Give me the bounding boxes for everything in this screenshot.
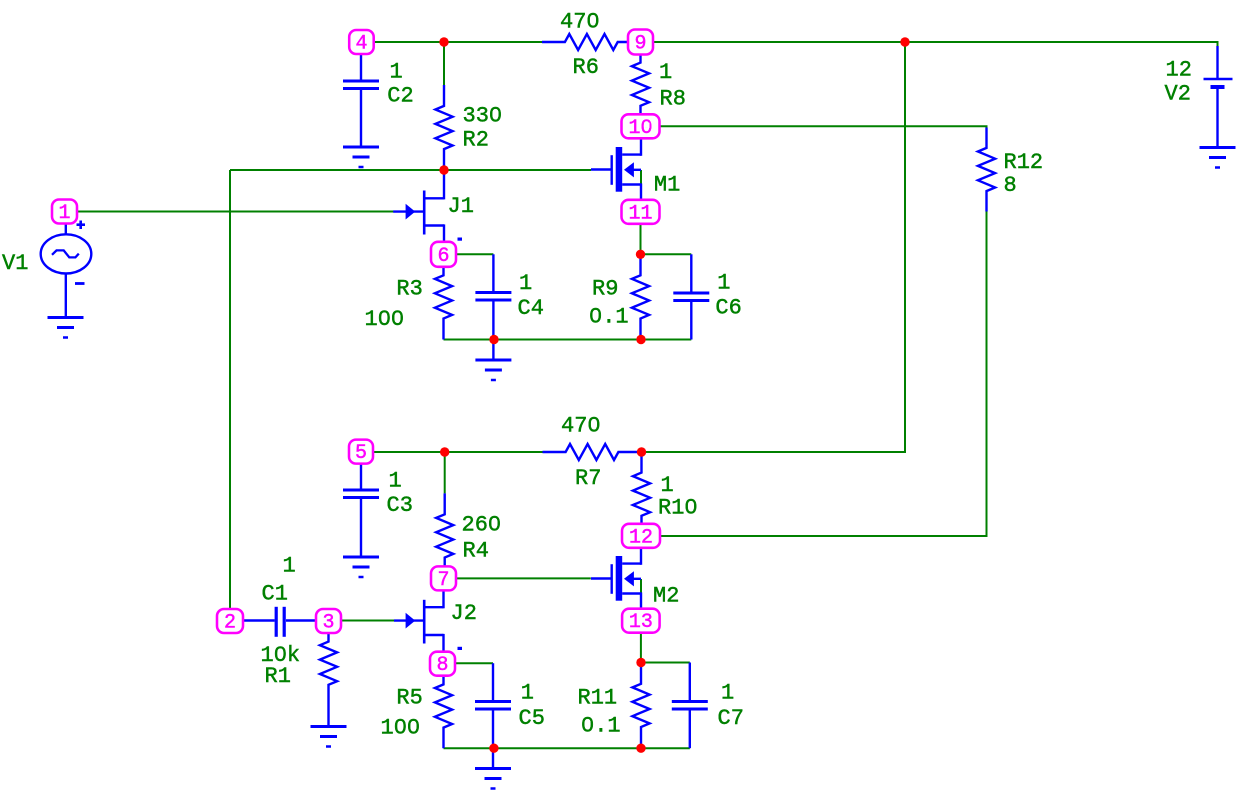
label V1 <box>2 251 28 276</box>
label R10 <box>658 495 698 520</box>
svg-text:C7: C7 <box>718 706 744 731</box>
junction <box>439 165 448 174</box>
label R10 value 1 <box>661 473 674 498</box>
label R1 <box>265 664 291 689</box>
svg-text:9: 9 <box>634 33 646 56</box>
wire R12 to node12 <box>661 212 987 537</box>
svg-text:1: 1 <box>721 680 734 705</box>
label R7 value 470 <box>561 414 601 439</box>
junction <box>440 447 449 456</box>
transistor M2 <box>591 547 641 609</box>
label C6 value 1 <box>717 271 730 296</box>
svg-text:2: 2 <box>224 612 236 635</box>
resistor R3 <box>435 254 452 339</box>
wire node6 to C4 <box>456 253 493 255</box>
svg-text:1: 1 <box>661 473 674 498</box>
label M2 <box>653 583 679 608</box>
svg-text:J2: J2 <box>451 601 477 626</box>
svg-text:3: 3 <box>322 612 334 635</box>
label R12 <box>1004 150 1044 175</box>
resistor R4 <box>436 493 453 578</box>
label R5 <box>396 686 422 711</box>
svg-text:12: 12 <box>1166 58 1192 83</box>
wire node9 to V2 <box>653 42 1218 47</box>
label R7 <box>575 466 601 491</box>
svg-text:1: 1 <box>717 271 730 296</box>
wire node11 down <box>640 223 642 254</box>
resistor R9 <box>632 254 649 339</box>
wire node7 to M2 gate <box>456 577 591 579</box>
svg-text:1: 1 <box>519 271 532 296</box>
svg-text:R11: R11 <box>578 685 618 710</box>
ground (C4) <box>475 360 511 380</box>
svg-text:5: 5 <box>355 442 367 465</box>
node 4 <box>349 30 374 56</box>
svg-text:1: 1 <box>58 202 70 225</box>
svg-text:M1: M1 <box>654 173 680 198</box>
junction <box>636 335 645 344</box>
wire to C7 top <box>641 662 690 664</box>
wire C4 to ground <box>492 340 494 361</box>
node 9 <box>628 30 653 56</box>
node 13 <box>622 609 660 635</box>
svg-text:13: 13 <box>629 611 653 634</box>
wire to R4 top <box>444 452 446 493</box>
transistor M1 <box>591 138 641 200</box>
capacitor C6 <box>673 254 709 339</box>
node 10 <box>622 114 660 140</box>
label R2 <box>463 127 489 152</box>
junction <box>900 37 909 46</box>
capacitor C4 <box>475 254 511 339</box>
svg-text:V2: V2 <box>1165 82 1191 107</box>
svg-text:8: 8 <box>1004 173 1017 198</box>
pin dot near node 8 <box>458 647 463 650</box>
svg-text:1: 1 <box>521 680 534 705</box>
wire gate rail to M1 <box>230 169 591 171</box>
svg-text:R5: R5 <box>396 686 422 711</box>
label C5 value 1 <box>521 680 534 705</box>
svg-text:R12: R12 <box>1004 150 1044 175</box>
label R11 value 0.1 <box>581 713 621 738</box>
svg-text:R1: R1 <box>265 664 291 689</box>
svg-text:J1: J1 <box>448 194 474 219</box>
transistor J2 <box>394 591 444 652</box>
label J1 <box>448 194 474 219</box>
ground (R1) <box>311 727 347 747</box>
label R5 value 100 <box>381 716 421 741</box>
svg-text:C5: C5 <box>519 706 545 731</box>
node 2 <box>217 609 243 635</box>
label C7 <box>718 706 744 731</box>
junction <box>636 658 645 667</box>
resistor R11 <box>632 663 649 749</box>
label R3 value 100 <box>365 307 405 332</box>
node 6 <box>431 242 456 268</box>
resistor R2 <box>435 85 452 170</box>
label R8 value 1 <box>659 60 672 85</box>
wire node13 down <box>640 632 642 662</box>
node 5 <box>349 440 373 466</box>
label C4 value 1 <box>519 271 532 296</box>
label C1 value 1 <box>283 554 296 579</box>
node 11 <box>622 200 660 226</box>
wire down to node2 <box>229 170 231 609</box>
label R6 value 470 <box>560 10 600 35</box>
resistor R10 <box>633 452 650 537</box>
wire node1 to J1 gate <box>77 211 394 213</box>
svg-text:10: 10 <box>628 117 652 140</box>
svg-text:C4: C4 <box>518 296 544 321</box>
svg-text:C3: C3 <box>387 493 413 518</box>
capacitor C2 <box>343 54 379 147</box>
label R2 value 330 <box>463 103 503 128</box>
svg-text:R4: R4 <box>463 539 489 564</box>
svg-text:V1: V1 <box>2 251 28 276</box>
junction <box>636 744 645 753</box>
wire R7 to supply riser <box>642 42 906 452</box>
wire node5 to R7 <box>373 451 543 453</box>
ground (C3) <box>343 557 379 577</box>
label R8 <box>660 87 686 112</box>
node 1 <box>52 200 77 226</box>
wire node3 to J2 gate <box>341 620 395 622</box>
label C6 <box>715 296 741 321</box>
wire M1 bulk to source <box>640 170 642 185</box>
node 3 <box>316 609 341 635</box>
svg-text:R8: R8 <box>660 87 686 112</box>
wire stage1 bottom rail <box>444 339 692 341</box>
label C5 <box>519 706 545 731</box>
svg-text:R2: R2 <box>463 127 489 152</box>
transistor J1 <box>393 170 444 242</box>
label R12 value 8 <box>1004 173 1017 198</box>
svg-text:R3: R3 <box>396 276 422 301</box>
capacitor C1 <box>230 607 329 637</box>
ground (V1) <box>48 318 84 338</box>
svg-text:1: 1 <box>659 60 672 85</box>
svg-text:12: 12 <box>629 526 653 549</box>
label C3 value 1 <box>389 469 402 494</box>
label C4 <box>518 296 544 321</box>
wire to C6 top <box>641 253 692 255</box>
svg-text:R6: R6 <box>573 55 599 80</box>
wire node10 to R12 <box>660 126 987 128</box>
resistor R6 <box>542 34 641 50</box>
label C1 <box>262 581 288 606</box>
capacitor C5 <box>475 663 511 748</box>
pin dot near node 6 <box>458 238 463 241</box>
svg-text:C1: C1 <box>262 581 288 606</box>
ground (V2) <box>1200 148 1236 168</box>
battery V2 <box>1204 46 1233 148</box>
svg-text:1: 1 <box>389 469 402 494</box>
resistor R7 <box>543 444 642 460</box>
wire stage2 bottom rail <box>444 747 690 749</box>
label C3 <box>387 493 413 518</box>
svg-text:1: 1 <box>390 59 403 84</box>
resistor R12 <box>978 128 995 212</box>
node 8 <box>430 652 455 678</box>
ground (C2) <box>343 147 379 167</box>
label R9 <box>592 276 618 301</box>
svg-text:R7: R7 <box>575 466 601 491</box>
label R4 value 260 <box>462 513 502 538</box>
junction <box>637 447 646 456</box>
svg-text:7: 7 <box>437 569 449 592</box>
junction <box>489 335 498 344</box>
resistor R1 <box>320 621 337 727</box>
label J2 <box>451 601 477 626</box>
svg-text:1: 1 <box>283 554 296 579</box>
wire node4 to R6 <box>373 41 542 43</box>
capacitor C3 <box>343 464 379 557</box>
junction <box>439 37 448 46</box>
svg-text:R9: R9 <box>592 276 618 301</box>
ground (C5) <box>475 769 511 789</box>
svg-text:4: 4 <box>355 33 367 56</box>
label R11 <box>578 685 618 710</box>
label R1 value 10k <box>261 643 301 668</box>
resistor R8 <box>632 42 649 126</box>
label C2 <box>387 83 413 108</box>
junction <box>489 744 498 753</box>
capacitor C7 <box>672 663 708 749</box>
label V2 value 12 <box>1166 58 1192 83</box>
svg-text:11: 11 <box>628 202 652 225</box>
label R3 <box>396 276 422 301</box>
wire node8 to C5 <box>455 662 493 664</box>
label C7 value 1 <box>721 680 734 705</box>
svg-text:8: 8 <box>436 654 448 677</box>
node 7 <box>431 566 456 592</box>
wire M2 bulk to source <box>640 579 642 594</box>
node 12 <box>622 524 660 550</box>
wire C5 to ground <box>492 748 494 768</box>
voltage source V1 <box>41 221 92 318</box>
junction <box>636 250 645 259</box>
svg-text:C6: C6 <box>715 296 741 321</box>
label C2 value 1 <box>390 59 403 84</box>
label R4 <box>463 539 489 564</box>
resistor R5 <box>435 664 452 749</box>
label M1 <box>654 173 680 198</box>
svg-text:M2: M2 <box>653 583 679 608</box>
svg-text:C2: C2 <box>387 83 413 108</box>
wire to R2 top <box>443 42 445 85</box>
label V2 <box>1165 82 1191 107</box>
label R9 value 0.1 <box>589 304 629 329</box>
label R6 <box>573 55 599 80</box>
svg-text:6: 6 <box>437 245 449 268</box>
